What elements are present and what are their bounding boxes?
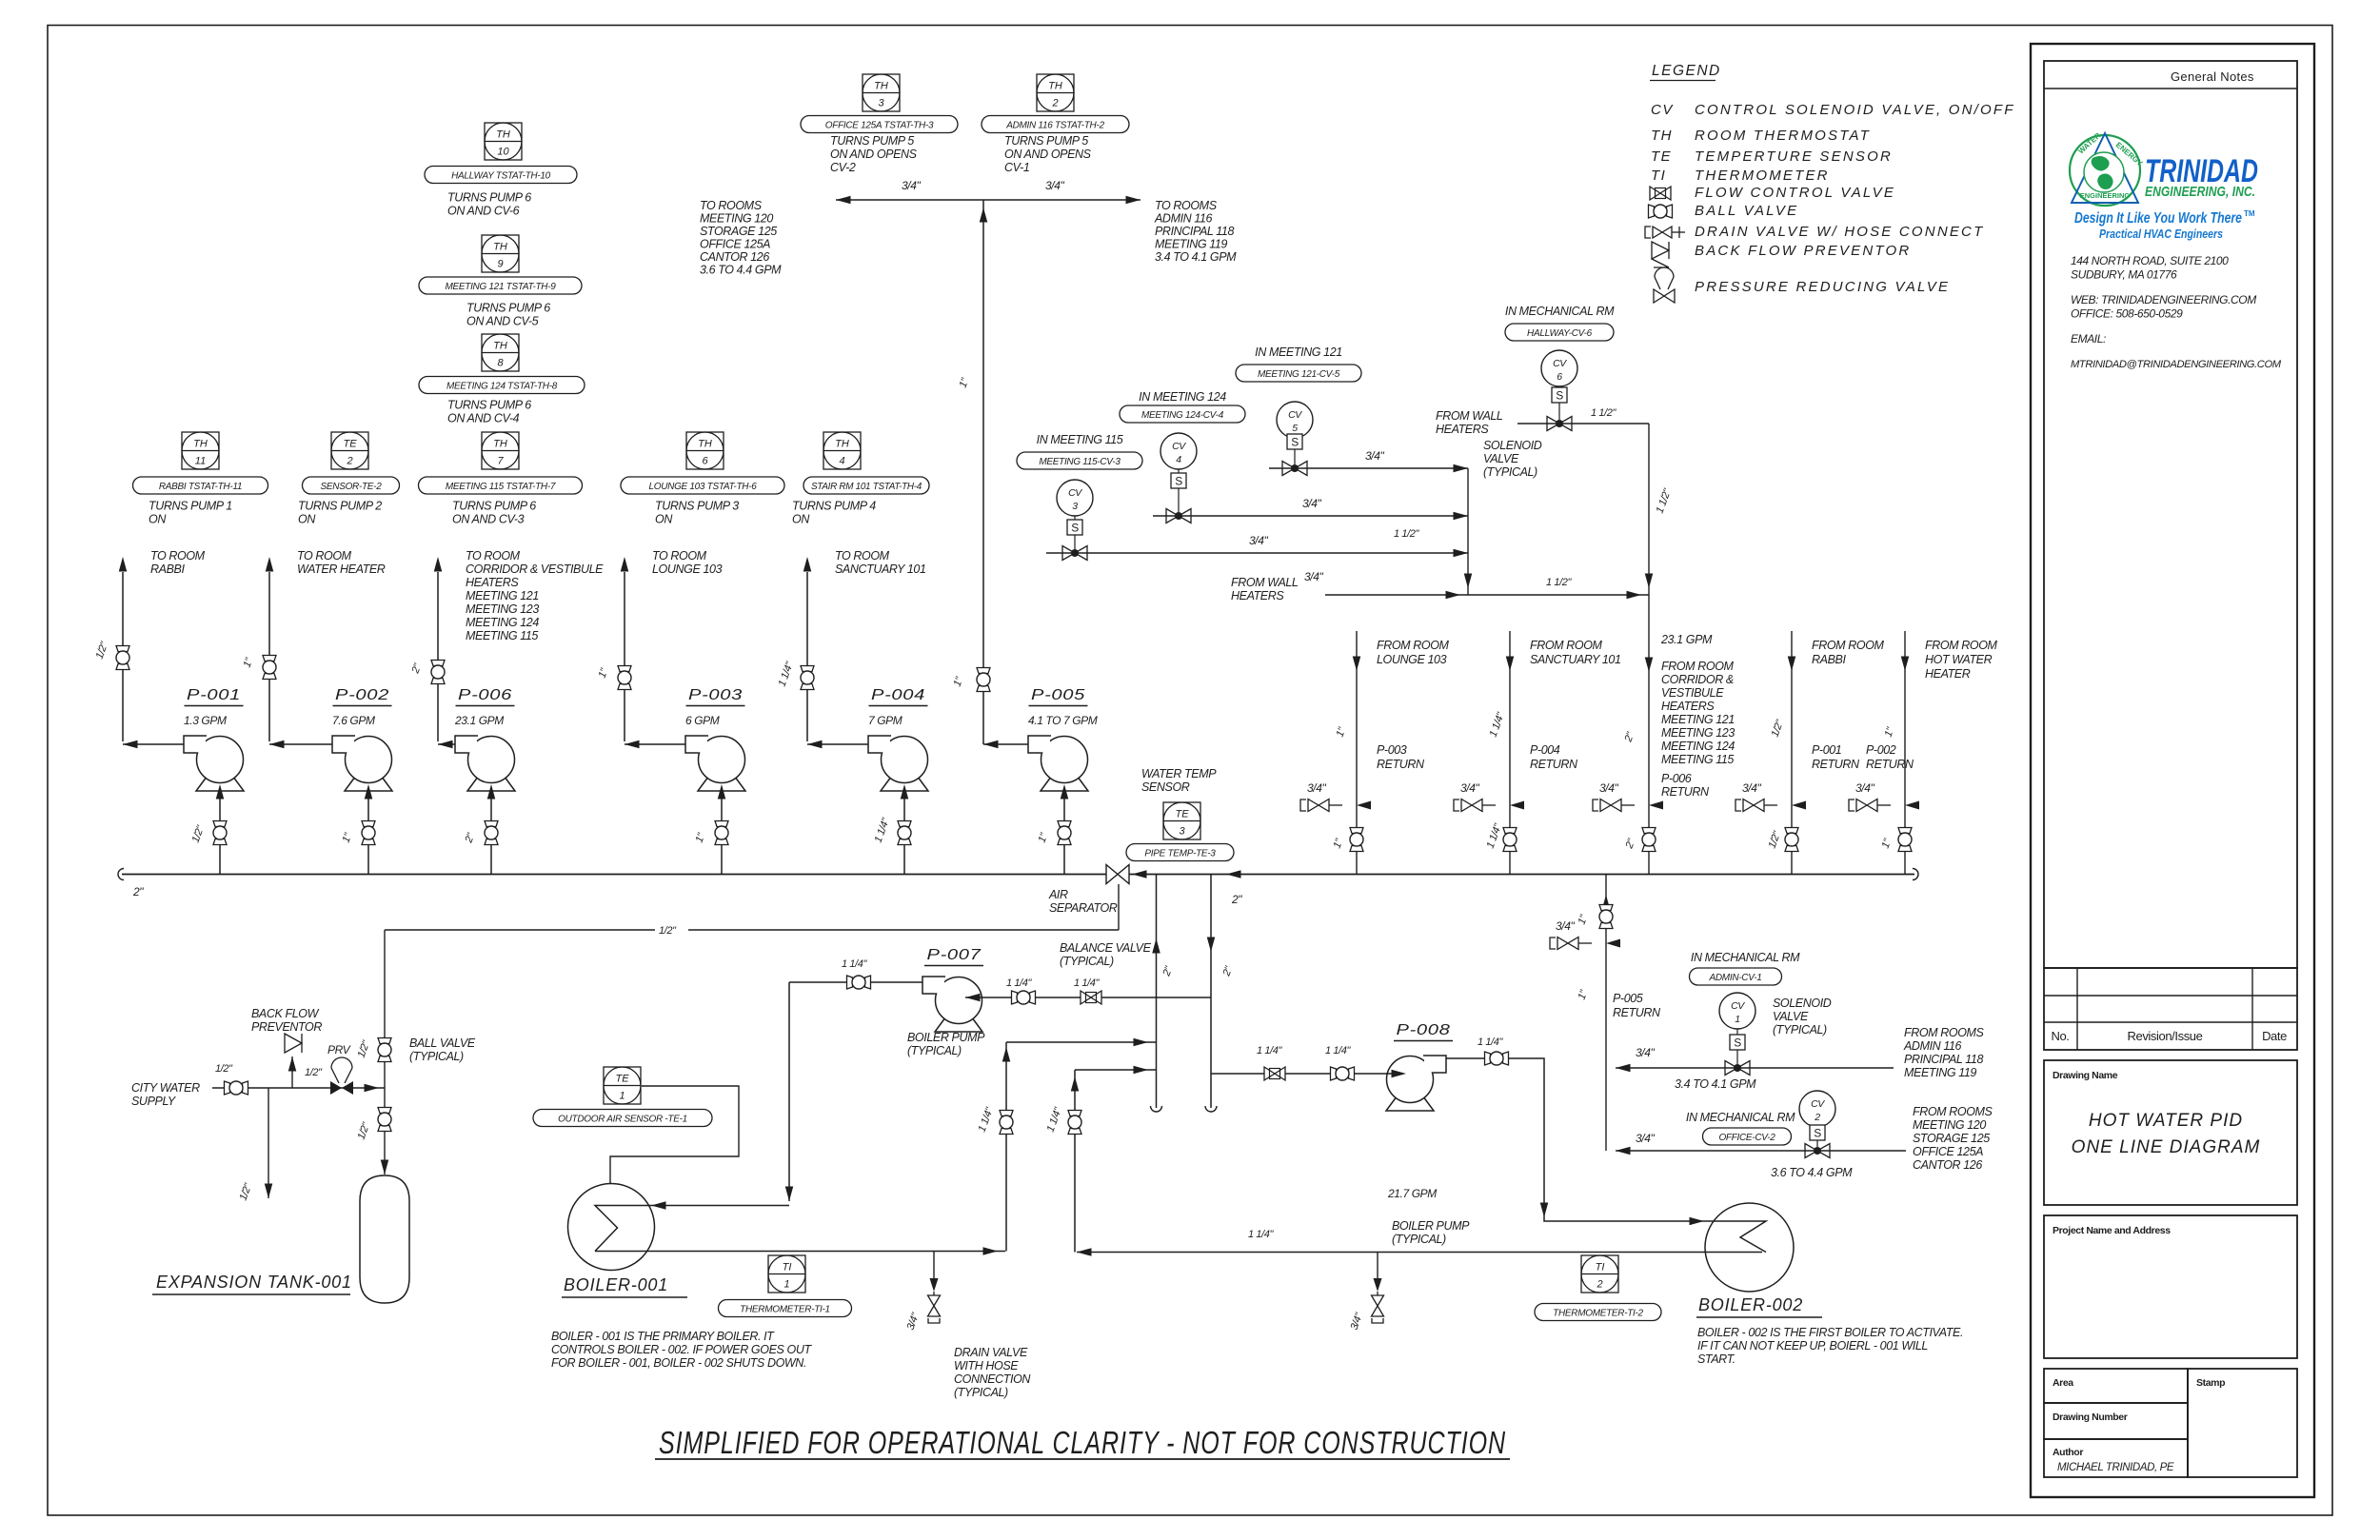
valve city ball valve	[225, 1081, 230, 1095]
svg-text:TE: TE	[1175, 809, 1189, 820]
svg-text:IN MECHANICAL RM: IN MECHANICAL RM	[1505, 305, 1615, 318]
svg-text:3/4": 3/4"	[1636, 1046, 1655, 1059]
svg-text:ON AND CV-3: ON AND CV-3	[452, 513, 525, 526]
valve suction ball valve P-005	[1058, 821, 1071, 827]
svg-text:BACK FLOW PREVENTOR: BACK FLOW PREVENTOR	[1695, 243, 1911, 259]
svg-text:1 1/4": 1 1/4"	[1478, 1037, 1503, 1048]
svg-text:4.1 TO 7 GPM: 4.1 TO 7 GPM	[1028, 714, 1098, 727]
svg-text:FROM ROOM: FROM ROOM	[1530, 639, 1603, 652]
svg-text:IN MECHANICAL RM: IN MECHANICAL RM	[1686, 1111, 1795, 1124]
drawing number box	[2044, 1403, 2188, 1439]
svg-text:THERMOMETER: THERMOMETER	[1695, 168, 1830, 184]
svg-text:1/2": 1/2"	[215, 1063, 233, 1075]
svg-text:P-004: P-004	[1530, 743, 1560, 757]
svg-text:Drawing Name: Drawing Name	[2053, 1070, 2118, 1081]
svg-text:CORRIDOR & VESTIBULE: CORRIDOR & VESTIBULE	[466, 563, 604, 576]
svg-text:P-003: P-003	[1377, 743, 1407, 757]
wire discharge P-003	[625, 743, 685, 745]
label OFFICE 125A TSTAT-TH-3	[801, 116, 958, 133]
svg-text:OFFICE 125A TSTAT-TH-3: OFFICE 125A TSTAT-TH-3	[825, 120, 934, 130]
valve ball valve riser	[1350, 828, 1363, 834]
arrow on main near air separator	[1132, 870, 1147, 879]
svg-text:7.6 GPM: 7.6 GPM	[332, 714, 375, 727]
wire return riser x=1425	[1356, 631, 1358, 875]
wire riser1 elbow to trunk A	[1006, 1041, 1157, 1043]
svg-text:OUTDOOR AIR SENSOR -TE-1: OUTDOOR AIR SENSOR -TE-1	[558, 1114, 687, 1124]
svg-text:3/4": 3/4"	[1556, 919, 1575, 933]
svg-text:FROM ROOM: FROM ROOM	[1377, 639, 1450, 652]
legend pressure reducing valve symbol	[1655, 267, 1674, 277]
valve ball valve P-007 right	[1012, 991, 1018, 1004]
svg-text:START.: START.	[1697, 1352, 1735, 1366]
svg-text:SOLENOID: SOLENOID	[1773, 997, 1832, 1010]
svg-text:1.3 GPM: 1.3 GPM	[184, 714, 227, 727]
arrow into riser	[365, 1084, 380, 1093]
svg-text:S: S	[1556, 389, 1563, 403]
wire boiler-002 inlet inner	[1700, 1220, 1745, 1222]
svg-text:CV-1: CV-1	[1004, 161, 1029, 174]
svg-text:RETURN: RETURN	[1661, 785, 1710, 799]
pump P-003	[699, 737, 745, 783]
svg-text:CV: CV	[1731, 1000, 1745, 1012]
drawing name box	[2044, 1060, 2297, 1205]
svg-text:P-002: P-002	[335, 687, 389, 703]
svg-text:CONTROLS BOILER - 002. IF POWE: CONTROLS BOILER - 002. IF POWER GOES OUT	[551, 1343, 812, 1356]
legend ball valve symbol	[1649, 205, 1655, 218]
thermostat TH-8	[482, 334, 519, 371]
thermometer TI-1	[768, 1255, 805, 1293]
svg-text:10: 10	[497, 147, 509, 158]
svg-text:(TYPICAL): (TYPICAL)	[907, 1044, 962, 1057]
svg-text:3: 3	[1179, 826, 1185, 838]
wire collector vertical	[1467, 468, 1469, 595]
svg-text:P-005: P-005	[1031, 687, 1085, 703]
valve suction ball valve P-003	[715, 821, 728, 827]
thermometer TI-2	[1581, 1255, 1618, 1293]
wire riser2	[1074, 1070, 1076, 1253]
valve riser1 ball valve	[1000, 1111, 1013, 1116]
svg-text:23.1 GPM: 23.1 GPM	[1660, 633, 1713, 646]
svg-text:3/4": 3/4"	[1307, 781, 1326, 795]
svg-text:AIR: AIR	[1048, 888, 1068, 901]
pump P-008	[1387, 1056, 1434, 1103]
drain valve riser3	[1649, 801, 1663, 810]
svg-text:FROM ROOMS: FROM ROOMS	[1904, 1026, 1985, 1039]
svg-text:TH: TH	[1048, 81, 1062, 92]
svg-text:RABBI TSTAT-TH-11: RABBI TSTAT-TH-11	[159, 482, 242, 492]
svg-text:1 1/4": 1 1/4"	[1074, 977, 1100, 989]
svg-text:Revision/Issue: Revision/Issue	[2128, 1029, 2203, 1043]
svg-text:3/4": 3/4"	[1365, 449, 1384, 463]
wire P-007 drop	[788, 982, 790, 1201]
wire CV-2 line	[1616, 1150, 1906, 1152]
svg-text:3/4": 3/4"	[1302, 497, 1321, 510]
svg-text:TM: TM	[2244, 209, 2255, 218]
svg-text:TH: TH	[493, 439, 507, 450]
svg-text:ROOM THERMOSTAT: ROOM THERMOSTAT	[1695, 128, 1871, 144]
svg-text:TH: TH	[1651, 128, 1673, 144]
svg-text:(TYPICAL): (TYPICAL)	[1392, 1233, 1446, 1246]
svg-text:5: 5	[1292, 423, 1298, 434]
label MEETING 121 TSTAT-TH-9	[419, 277, 582, 294]
svg-text:LOUNGE 103: LOUNGE 103	[1377, 653, 1447, 666]
svg-text:MEETING 124: MEETING 124	[1661, 740, 1735, 753]
legend flow control valve symbol	[1650, 187, 1671, 200]
svg-text:WITH HOSE: WITH HOSE	[954, 1359, 1019, 1372]
revision table	[2044, 968, 2297, 1050]
svg-text:OFFICE: 508-650-0529: OFFICE: 508-650-0529	[2071, 307, 2183, 321]
wire suction P-004	[903, 798, 905, 874]
label THERMOMETER-TI-1	[719, 1300, 852, 1317]
wire discharge P-005	[983, 743, 1028, 745]
svg-text:SENSOR-TE-2: SENSOR-TE-2	[321, 482, 383, 492]
wire trunk B down from main	[1210, 875, 1212, 1109]
svg-text:BOILER-001: BOILER-001	[564, 1275, 668, 1294]
wire wall heater line	[1325, 594, 1649, 596]
svg-text:IF IT CAN NOT KEEP UP, BOIERL: IF IT CAN NOT KEEP UP, BOIERL - 001 WILL	[1697, 1339, 1928, 1352]
svg-text:1: 1	[1735, 1014, 1739, 1025]
svg-text:MEETING 121: MEETING 121	[1661, 713, 1735, 726]
svg-text:BALL VALVE: BALL VALVE	[409, 1037, 476, 1050]
svg-text:2": 2"	[132, 885, 144, 898]
svg-text:TURNS PUMP 1: TURNS PUMP 1	[149, 500, 232, 513]
wire tank riser	[384, 930, 386, 1175]
svg-text:TURNS PUMP 5: TURNS PUMP 5	[830, 134, 914, 148]
svg-text:TH: TH	[835, 439, 849, 450]
svg-text:DRAIN VALVE W/ HOSE CONNECT: DRAIN VALVE W/ HOSE CONNECT	[1695, 224, 1984, 240]
svg-text:TURNS PUMP 6: TURNS PUMP 6	[447, 399, 531, 412]
valve tank riser lower ball valve	[378, 1108, 391, 1114]
svg-text:2: 2	[1596, 1279, 1602, 1291]
pump P-005	[1041, 737, 1088, 783]
drain valve P-005 return	[1606, 939, 1620, 948]
svg-text:S: S	[1071, 522, 1079, 535]
svg-text:23.1 GPM: 23.1 GPM	[454, 714, 504, 727]
pipe cap right	[1913, 869, 1918, 880]
svg-text:PRINCIPAL 118: PRINCIPAL 118	[1904, 1053, 1983, 1066]
svg-text:ON AND CV-4: ON AND CV-4	[447, 412, 520, 425]
pipe cap left	[118, 869, 124, 880]
svg-text:WEB: TRINIDADENGINEERING.COM: WEB: TRINIDADENGINEERING.COM	[2071, 293, 2256, 306]
svg-text:ON: ON	[655, 513, 673, 526]
valve ball valve riser	[1503, 828, 1517, 834]
svg-text:HEATERS: HEATERS	[1436, 423, 1489, 436]
svg-text:P-001: P-001	[187, 687, 241, 703]
svg-text:IN MECHANICAL RM: IN MECHANICAL RM	[1691, 951, 1800, 964]
wire suction P-006	[490, 798, 492, 874]
wire riser to room at x=656	[624, 572, 625, 741]
wire main header 2 in	[122, 874, 1914, 876]
thermostat TH-3	[863, 74, 900, 111]
svg-text:BOILER PUMP: BOILER PUMP	[907, 1031, 985, 1044]
area box	[2044, 1369, 2188, 1403]
svg-text:BOILER - 002 IS THE FIRST BOIL: BOILER - 002 IS THE FIRST BOILER TO ACTI…	[1697, 1326, 1963, 1339]
svg-text:1 1/4": 1 1/4"	[1248, 1229, 1274, 1240]
svg-text:FROM ROOM: FROM ROOM	[1661, 660, 1735, 673]
valve ball valve P-008 out	[1485, 1052, 1491, 1065]
thermostat TH-9	[482, 235, 519, 272]
wire P-007 inlet left	[789, 981, 922, 983]
svg-text:TI: TI	[1651, 168, 1666, 184]
svg-text:LOUNGE 103: LOUNGE 103	[652, 563, 723, 576]
svg-text:P-006: P-006	[1661, 772, 1692, 785]
svg-text:MEETING 115 TSTAT-TH-7: MEETING 115 TSTAT-TH-7	[446, 482, 556, 492]
label OUTDOOR AIR SENSOR -TE-1	[533, 1110, 712, 1127]
svg-text:3/4": 3/4"	[1304, 570, 1323, 583]
svg-text:VALVE: VALVE	[1483, 452, 1519, 465]
thermostat TH-2	[1037, 74, 1074, 111]
svg-text:TURNS PUMP 4: TURNS PUMP 4	[792, 500, 876, 513]
wire riser2 elbow to trunk A	[1075, 1069, 1157, 1071]
pump P-006	[468, 737, 515, 783]
svg-text:THERMOMETER-TI-2: THERMOMETER-TI-2	[1553, 1308, 1643, 1318]
svg-text:CV: CV	[1068, 487, 1082, 499]
svg-text:ON: ON	[792, 513, 810, 526]
valve trunk ball valve	[977, 668, 990, 674]
wire CV-6 drop to wall heater line	[1648, 424, 1650, 595]
svg-text:IN MEETING 124: IN MEETING 124	[1139, 390, 1226, 404]
svg-text:ENGINEERING, INC.: ENGINEERING, INC.	[2145, 184, 2255, 200]
pump P-004	[882, 737, 928, 783]
wire riser to room at x=848	[806, 572, 808, 741]
valve tank riser upper ball valve	[378, 1038, 391, 1044]
svg-text:(TYPICAL): (TYPICAL)	[954, 1386, 1008, 1399]
wire riser1 from boiler outlet	[1005, 1042, 1007, 1252]
arrow on main near trunk B	[1226, 870, 1241, 879]
sensor TE-2	[331, 432, 368, 469]
svg-text:FOR BOILER - 001, BOILER - 002: FOR BOILER - 001, BOILER - 002 SHUTS DOW…	[551, 1356, 806, 1370]
svg-text:CV: CV	[1651, 102, 1674, 118]
wire discharge P-006	[438, 743, 455, 745]
title block frame	[2031, 44, 2314, 1497]
svg-text:1: 1	[619, 1091, 625, 1102]
svg-text:WATER HEATER: WATER HEATER	[297, 563, 386, 576]
svg-text:STORAGE 125: STORAGE 125	[1913, 1132, 1990, 1145]
valve suction ball valve P-001	[213, 821, 227, 827]
svg-text:P-005: P-005	[1613, 992, 1643, 1005]
svg-text:MEETING 124: MEETING 124	[466, 616, 539, 629]
stamp box	[2188, 1369, 2297, 1477]
pump P-007	[936, 977, 982, 1024]
svg-text:3/4": 3/4"	[902, 179, 921, 192]
pump P-001	[197, 737, 244, 783]
svg-text:BALL VALVE: BALL VALVE	[1695, 203, 1798, 219]
svg-text:TH: TH	[493, 341, 507, 352]
svg-text:7 GPM: 7 GPM	[868, 714, 902, 727]
svg-text:1 1/4": 1 1/4"	[1006, 977, 1032, 989]
svg-text:PRESSURE REDUCING VALVE: PRESSURE REDUCING VALVE	[1695, 279, 1950, 295]
svg-text:HEATERS: HEATERS	[1661, 700, 1715, 713]
svg-text:3.4 TO 4.1 GPM: 3.4 TO 4.1 GPM	[1675, 1077, 1756, 1091]
svg-text:TO ROOM: TO ROOM	[466, 549, 521, 563]
svg-text:MTRINIDAD@TRINIDADENGINEERING.: MTRINIDAD@TRINIDADENGINEERING.COM	[2071, 359, 2282, 370]
svg-text:3/4": 3/4"	[1742, 781, 1761, 795]
thermostat TH-4	[823, 432, 861, 469]
svg-text:RABBI: RABBI	[150, 563, 185, 576]
wire make-up water line	[385, 929, 655, 931]
svg-text:(TYPICAL): (TYPICAL)	[1060, 955, 1114, 968]
svg-text:TH: TH	[496, 129, 510, 141]
svg-text:TI: TI	[1596, 1262, 1605, 1273]
svg-text:TE: TE	[343, 439, 357, 450]
svg-text:SIMPLIFIED FOR OPERATIONAL CLA: SIMPLIFIED FOR OPERATIONAL CLARITY - NOT…	[659, 1425, 1506, 1460]
svg-text:PRINCIPAL 118: PRINCIPAL 118	[1155, 225, 1234, 238]
svg-text:6: 6	[1557, 371, 1562, 383]
wire CV-1 line	[1616, 1067, 1894, 1069]
svg-text:BACK FLOW: BACK FLOW	[251, 1007, 320, 1020]
label MEETING 115 TSTAT-TH-7	[419, 477, 583, 494]
svg-text:3.6 TO 4.4 GPM: 3.6 TO 4.4 GPM	[1771, 1166, 1853, 1179]
svg-text:No.: No.	[2051, 1029, 2069, 1043]
svg-text:TH: TH	[493, 242, 507, 253]
svg-text:S: S	[1175, 475, 1182, 488]
svg-text:WATER TEMP: WATER TEMP	[1141, 767, 1217, 780]
wire trunk riser P-005 to manifold	[982, 200, 984, 744]
svg-text:RETURN: RETURN	[1377, 758, 1425, 771]
svg-text:ON: ON	[298, 513, 316, 526]
svg-text:TO ROOM: TO ROOM	[835, 549, 890, 563]
svg-text:TURNS PUMP 5: TURNS PUMP 5	[1004, 134, 1088, 148]
svg-text:FROM WALL: FROM WALL	[1436, 409, 1503, 423]
svg-text:3/4": 3/4"	[1460, 781, 1479, 795]
wire return riser x=1732 lower	[1648, 595, 1650, 875]
svg-text:(TYPICAL): (TYPICAL)	[1773, 1023, 1827, 1037]
svg-text:HOT WATER PID: HOT WATER PID	[2089, 1111, 2243, 1131]
svg-text:MEETING 124-CV-4: MEETING 124-CV-4	[1141, 410, 1224, 421]
svg-text:CANTOR 126: CANTOR 126	[700, 250, 769, 264]
svg-text:MEETING 119: MEETING 119	[1904, 1066, 1976, 1079]
svg-text:TURNS PUMP 6: TURNS PUMP 6	[466, 302, 550, 315]
drain valve on riser	[1357, 801, 1371, 810]
svg-text:ONE LINE DIAGRAM: ONE LINE DIAGRAM	[2072, 1137, 2261, 1157]
valve ball valve on riser x=129	[116, 646, 129, 652]
svg-text:3/4": 3/4"	[1249, 534, 1268, 547]
svg-text:7: 7	[497, 456, 504, 467]
svg-text:RETURN: RETURN	[1613, 1006, 1661, 1019]
wire P-008 inlet	[1211, 1073, 1399, 1075]
label SENSOR-TE-2	[303, 477, 400, 494]
heat exchanger sigma B1	[595, 1206, 618, 1252]
sensor TE-1 outdoor air	[604, 1067, 641, 1104]
svg-text:P-007: P-007	[927, 947, 982, 963]
svg-text:BALANCE VALVE: BALANCE VALVE	[1060, 941, 1152, 955]
svg-text:CANTOR 126: CANTOR 126	[1913, 1158, 1982, 1172]
wire discharge P-002	[269, 743, 332, 745]
valve ball valve on riser x=460	[431, 661, 445, 666]
svg-text:ON AND OPENS: ON AND OPENS	[1004, 148, 1092, 161]
svg-text:Date: Date	[2262, 1029, 2287, 1043]
svg-text:1 1/2": 1 1/2"	[1546, 577, 1572, 588]
svg-text:1 1/4": 1 1/4"	[842, 958, 867, 970]
wire boiler-002 outlet to riser2	[1077, 1252, 1762, 1254]
svg-text:TURNS PUMP 2: TURNS PUMP 2	[298, 500, 382, 513]
svg-text:Design It Like You Work There: Design It Like You Work There	[2074, 210, 2242, 227]
svg-text:1/2": 1/2"	[305, 1067, 323, 1078]
drain valve below boiler-001 outlet	[933, 1252, 935, 1279]
label THERMOMETER-TI-2	[1535, 1304, 1661, 1321]
svg-text:IN MEETING 121: IN MEETING 121	[1255, 346, 1342, 359]
valve suction ball valve P-004	[898, 821, 911, 827]
legend back flow preventor symbol	[1652, 242, 1669, 259]
svg-text:CV: CV	[1811, 1098, 1825, 1110]
drain valve below return line	[1377, 1253, 1378, 1279]
svg-text:SANCTUARY 101: SANCTUARY 101	[835, 563, 926, 576]
svg-text:CONNECTION: CONNECTION	[954, 1372, 1031, 1386]
author box	[2044, 1439, 2188, 1477]
svg-text:ON AND OPENS: ON AND OPENS	[830, 148, 918, 161]
svg-text:3: 3	[878, 98, 884, 109]
wire discharge P-004	[807, 743, 868, 745]
svg-text:1/2": 1/2"	[659, 925, 677, 937]
svg-text:CV-2: CV-2	[830, 161, 856, 174]
thermostat TH-11	[182, 432, 219, 469]
svg-text:TI: TI	[783, 1262, 792, 1273]
svg-text:TO ROOMS: TO ROOMS	[1155, 199, 1218, 212]
valve ball valve P-008 in	[1331, 1067, 1337, 1080]
wire suction P-001	[219, 798, 221, 874]
svg-text:HEATERS: HEATERS	[466, 576, 519, 589]
svg-text:2": 2"	[1231, 893, 1242, 906]
svg-text:Author: Author	[2053, 1447, 2083, 1458]
svg-text:SANCTUARY 101: SANCTUARY 101	[1530, 653, 1621, 666]
svg-text:Practical HVAC Engineers: Practical HVAC Engineers	[2099, 227, 2223, 241]
svg-text:HOT WATER: HOT WATER	[1925, 653, 1993, 666]
svg-text:3: 3	[1072, 501, 1078, 512]
svg-text:RETURN: RETURN	[1530, 758, 1578, 771]
wire city water line	[212, 1087, 385, 1089]
svg-text:Drawing Number: Drawing Number	[2053, 1412, 2128, 1423]
logo trinidad engineering	[2070, 135, 2140, 206]
svg-text:VESTIBULE: VESTIBULE	[1661, 686, 1724, 700]
svg-text:CV: CV	[1288, 409, 1302, 421]
svg-text:TO ROOMS: TO ROOMS	[700, 199, 763, 212]
wire boiler-001 inlet	[615, 1205, 789, 1207]
svg-text:BOILER - 001 IS THE PRIMARY BO: BOILER - 001 IS THE PRIMARY BOILER. IT	[551, 1330, 775, 1343]
svg-text:RETURN: RETURN	[1812, 758, 1860, 771]
svg-text:EXPANSION TANK-001: EXPANSION TANK-001	[156, 1273, 352, 1292]
heat exchanger sigma B2	[1740, 1221, 1766, 1253]
svg-text:FROM ROOMS: FROM ROOMS	[1913, 1105, 1993, 1118]
svg-text:FROM ROOM: FROM ROOM	[1925, 639, 1998, 652]
wire CV-6 line	[1517, 423, 1649, 424]
svg-text:MEETING 115: MEETING 115	[466, 629, 538, 642]
svg-text:S: S	[1814, 1127, 1821, 1140]
svg-text:CONTROL SOLENOID VALVE, ON/OFF: CONTROL SOLENOID VALVE, ON/OFF	[1695, 102, 2015, 118]
svg-text:FROM WALL: FROM WALL	[1231, 576, 1299, 589]
svg-text:THERMOMETER-TI-1: THERMOMETER-TI-1	[740, 1304, 830, 1314]
boiler BOILER-001	[568, 1184, 655, 1271]
svg-text:3/4": 3/4"	[1599, 781, 1618, 795]
svg-text:SUPPLY: SUPPLY	[131, 1095, 177, 1108]
label STAIR RM 101 TSTAT-TH-4	[803, 477, 929, 494]
svg-text:OFFICE-CV-2: OFFICE-CV-2	[1718, 1133, 1775, 1143]
svg-text:HALLWAY-CV-6: HALLWAY-CV-6	[1527, 328, 1593, 339]
svg-text:TH: TH	[874, 81, 888, 92]
svg-text:LEGEND: LEGEND	[1652, 63, 1721, 79]
svg-text:9: 9	[497, 259, 503, 270]
svg-text:P-002: P-002	[1866, 743, 1896, 757]
svg-text:MEETING 119: MEETING 119	[1155, 238, 1227, 251]
svg-text:MEETING 120: MEETING 120	[1913, 1118, 1986, 1132]
wire suction P-003	[721, 798, 723, 874]
valve ball valve riser3	[1642, 828, 1656, 834]
svg-text:VALVE: VALVE	[1773, 1010, 1809, 1023]
valve suction ball valve P-002	[362, 821, 375, 827]
svg-text:BOILER-002: BOILER-002	[1698, 1295, 1803, 1314]
svg-text:4: 4	[839, 456, 844, 467]
svg-text:Stamp: Stamp	[2196, 1377, 2225, 1389]
svg-text:MICHAEL TRINIDAD, PE: MICHAEL TRINIDAD, PE	[2057, 1462, 2174, 1473]
